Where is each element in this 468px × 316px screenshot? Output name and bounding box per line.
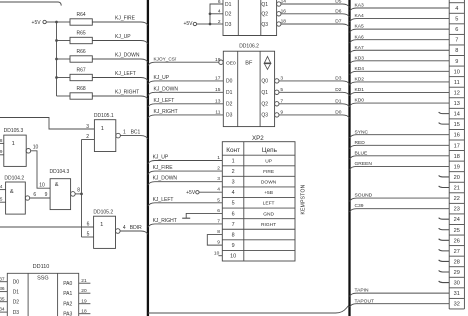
svg-text:TAPIN: TAPIN <box>355 288 370 294</box>
svg-text:KJ_UP: KJ_UP <box>154 75 170 81</box>
wire (net KA4 : bus to connector pin 5) <box>350 13 450 22</box>
svg-text:10: 10 <box>33 145 39 151</box>
junction (feed R67) <box>55 76 58 79</box>
wire (DD104.2 input pin 4) <box>0 184 6 190</box>
svg-text:PA2: PA2 <box>63 302 72 308</box>
svg-text:19: 19 <box>454 164 460 170</box>
svg-text:34: 34 <box>0 307 5 313</box>
junction (node pin8 / vertical) <box>80 193 83 196</box>
pin 14 (edge connector) <box>454 112 460 118</box>
svg-text:D1: D1 <box>225 2 232 8</box>
svg-text:2: 2 <box>86 134 89 140</box>
svg-text:TAPOUT: TAPOUT <box>355 298 374 304</box>
svg-text:KD4: KD4 <box>355 66 365 72</box>
svg-text:KJ_DOWN: KJ_DOWN <box>115 53 140 59</box>
svg-text:Конт: Конт <box>226 147 240 154</box>
svg-text:&: & <box>10 189 14 195</box>
svg-text:2: 2 <box>217 166 220 172</box>
svg-text:Q3: Q3 <box>261 22 268 28</box>
wire (DD104.3 pin 8 output) <box>75 188 81 194</box>
pin 23 (edge connector) <box>454 207 460 213</box>
resistor R64 <box>57 12 93 25</box>
svg-text:15: 15 <box>215 87 221 93</box>
svg-text:5: 5 <box>455 17 458 23</box>
wire (DD105.1 input pin 2) <box>82 134 95 140</box>
svg-text:31: 31 <box>454 291 460 297</box>
svg-text:6: 6 <box>455 27 458 33</box>
bus (left vertical signal bus) <box>147 0 149 316</box>
wire (net KJ_LEFT to bus) <box>92 71 148 81</box>
svg-text:8: 8 <box>77 188 80 194</box>
svg-text:10: 10 <box>230 254 236 260</box>
svg-text:D0: D0 <box>226 79 233 85</box>
pin 5 (edge connector) <box>455 17 458 23</box>
svg-text:20: 20 <box>81 288 87 294</box>
svg-text:5: 5 <box>232 201 235 207</box>
svg-text:8: 8 <box>217 229 220 235</box>
resistor R65 <box>57 30 93 43</box>
wire (DD110 pin 20 output PA1) <box>63 288 90 297</box>
svg-text:Q0: Q0 <box>261 79 268 85</box>
svg-text:13: 13 <box>454 101 460 107</box>
svg-text:KJ_LEFT: KJ_LEFT <box>153 197 174 203</box>
svg-text:3: 3 <box>217 176 220 182</box>
wire (net D2 : DD106.2 Q1 pin 5 to bus) <box>261 87 349 96</box>
pin 28 (edge connector) <box>454 259 460 265</box>
svg-text:DOWN: DOWN <box>261 180 277 186</box>
gate DD105.2 (OR-NOT, "1") <box>93 209 120 248</box>
svg-text:PA0: PA0 <box>63 281 72 287</box>
wire (XP2 pins 8-9 jumper) <box>207 229 222 246</box>
pin 2 (DD106.1 input D3) <box>218 19 232 28</box>
pin 30 (edge connector) <box>454 281 460 287</box>
wire (net KJ_RIGHT : bus to DD106.2 D3 pin 11) <box>148 109 233 119</box>
svg-text:PA3: PA3 <box>63 312 72 316</box>
wire (DD110 pin 18 output PA3) <box>63 308 90 316</box>
wire (DD105.3 pin 10 to DD104.3 pin 10) <box>31 145 50 189</box>
svg-text:21: 21 <box>454 186 460 192</box>
wire (connector pin 30 stub) <box>439 281 450 283</box>
svg-text:KJ_UP: KJ_UP <box>153 154 169 160</box>
svg-text:UP: UP <box>265 158 272 164</box>
svg-text:10: 10 <box>454 69 460 75</box>
svg-text:5: 5 <box>87 232 90 238</box>
svg-text:KJ_LEFT: KJ_LEFT <box>115 71 136 77</box>
pin 4 (edge connector) <box>455 6 458 12</box>
wire (net BC1 : DD105.1 pin 1 to bus) <box>120 129 147 139</box>
wire (net KJ_LEFT : bus to DD106.2 D2 pin 13) <box>148 98 233 108</box>
wire (connector pin 21 stub) <box>439 186 450 188</box>
svg-text:D3: D3 <box>13 310 20 316</box>
svg-text:D0: D0 <box>335 109 341 115</box>
svg-text:9: 9 <box>45 192 48 198</box>
svg-text:5: 5 <box>217 197 220 203</box>
wire (vertical net: DD105.1 pin2 / DD104.3 pin8 / DD105.2 pin5) <box>81 140 83 238</box>
svg-text:D3: D3 <box>226 113 233 119</box>
gate DD104.2 (NAND, "&") <box>4 175 29 214</box>
gate DD105.3 (OR-NOT, "1") <box>4 128 31 166</box>
power +5V (XP2 pin 4) <box>186 187 222 196</box>
svg-text:RIGHT: RIGHT <box>261 222 276 228</box>
svg-text:Цепь: Цепь <box>262 147 278 154</box>
wire (net KJ_UP : bus to XP2 pin 1) <box>148 154 222 163</box>
svg-text:D2: D2 <box>226 102 233 108</box>
svg-text:+5B: +5B <box>264 190 273 196</box>
wire (net KJ_DOWN to bus) <box>92 53 148 63</box>
svg-text:6: 6 <box>232 211 235 217</box>
gate DD104.3 (NAND, "&") <box>50 169 76 210</box>
svg-text:19: 19 <box>81 298 87 304</box>
svg-text:KJ_RIGHT: KJ_RIGHT <box>154 109 178 115</box>
wire (net KD4 : bus to connector pin 10) <box>350 66 450 75</box>
svg-text:DD106.2: DD106.2 <box>239 44 259 50</box>
pin 26 (edge connector) <box>454 238 460 244</box>
junction (D2 feed) <box>209 12 212 15</box>
pin 32 (edge connector) <box>454 302 460 308</box>
svg-text:29: 29 <box>454 270 460 276</box>
wire (DD104.2 input pin 5) <box>0 197 6 203</box>
svg-text:1: 1 <box>232 158 235 164</box>
svg-text:KJ_RIGHT: KJ_RIGHT <box>153 218 177 224</box>
svg-text:Q1: Q1 <box>261 2 268 8</box>
svg-text:7: 7 <box>232 222 235 228</box>
svg-text:4: 4 <box>218 9 221 15</box>
svg-text:27: 27 <box>454 249 460 255</box>
svg-text:11: 11 <box>454 80 460 86</box>
svg-text:C39: C39 <box>355 203 364 209</box>
svg-text:DD105.2: DD105.2 <box>93 209 113 215</box>
svg-text:7: 7 <box>455 38 458 44</box>
svg-text:BF: BF <box>245 60 253 66</box>
svg-text:DD104.2: DD104.2 <box>4 175 24 181</box>
svg-text:DD105.1: DD105.1 <box>94 113 114 119</box>
wire (net KJ_RIGHT to bus) <box>92 90 148 100</box>
wire (net KJOY_CS/ : bus to DD106.2 pin 19 OE0) <box>148 56 236 66</box>
svg-text:6: 6 <box>33 192 36 198</box>
pin 27 (edge connector) <box>454 249 460 255</box>
wire (net KD0 : bus to connector pin 13) <box>350 98 450 107</box>
svg-text:R68: R68 <box>77 86 86 92</box>
svg-text:BLUE: BLUE <box>355 150 369 156</box>
svg-text:3: 3 <box>455 0 458 1</box>
wire (net D0 : DD106.2 Q3 pin 9 to bus) <box>261 109 349 118</box>
svg-text:R67: R67 <box>77 67 86 73</box>
svg-text:13: 13 <box>215 98 221 104</box>
wire (net KD1 : bus to connector pin 12) <box>350 87 450 96</box>
svg-text:D2: D2 <box>13 300 20 306</box>
junction (D3 feed) <box>209 23 212 26</box>
svg-text:Q3: Q3 <box>261 113 268 119</box>
svg-text:R64: R64 <box>77 12 86 18</box>
svg-text:SOUND: SOUND <box>355 193 373 199</box>
wire (bottom net: left bus to right bus) <box>148 306 349 313</box>
svg-text:KD0: KD0 <box>355 98 365 104</box>
wire (net KJ_DOWN : bus to XP2 pin 3) <box>148 176 222 185</box>
wire (+5V to D1-D3 inputs) <box>210 4 223 24</box>
wire (net C39 : bus to connector pin 23) <box>350 203 450 212</box>
connector XS1 (edge connector cells) <box>449 0 464 309</box>
wire (net D1 : DD106.2 Q2 pin 7 to bus) <box>261 98 349 107</box>
svg-text:&: & <box>55 182 59 188</box>
pin 24 (edge connector) <box>454 217 460 223</box>
pin 4 (DD106.1 input D2) <box>218 9 232 18</box>
svg-text:8: 8 <box>232 232 235 238</box>
svg-text:D1: D1 <box>13 289 20 295</box>
svg-text:GREEN: GREEN <box>355 161 373 167</box>
svg-text:6: 6 <box>218 0 221 5</box>
svg-text:KEMPSTON: KEMPSTON <box>301 184 307 214</box>
svg-text:DD104.3: DD104.3 <box>50 169 70 175</box>
svg-text:D1: D1 <box>226 90 233 96</box>
wire (DD110 pin 21 output PA0) <box>63 278 90 287</box>
wire (DD105.3 input pin 8) <box>0 138 4 144</box>
svg-text:R65: R65 <box>77 30 86 36</box>
svg-text:6: 6 <box>87 221 90 227</box>
svg-text:D0: D0 <box>13 280 20 286</box>
svg-text:6: 6 <box>217 208 220 214</box>
wire (DD104.2 pin 6 to DD104.3 pin 9) <box>30 192 50 198</box>
svg-text:22: 22 <box>454 196 460 202</box>
svg-text:4: 4 <box>217 187 220 193</box>
svg-text:KA6: KA6 <box>355 34 365 40</box>
wire (DD105.2 input pin 6 from left) <box>0 221 94 227</box>
wire (net KD3 : bus to connector pin 9) <box>350 55 450 64</box>
svg-text:1: 1 <box>101 126 104 132</box>
svg-text:12: 12 <box>454 90 460 96</box>
pin 29 (edge connector) <box>454 270 460 276</box>
pin 7 (edge connector) <box>455 38 458 44</box>
svg-text:3: 3 <box>232 180 235 186</box>
pin 19 (edge connector) <box>454 164 460 170</box>
svg-text:KA5: KA5 <box>355 24 365 30</box>
wire (DD110 pin 37 input D0) <box>0 276 19 285</box>
svg-text:D2: D2 <box>335 87 341 93</box>
wire (net KJ_UP to bus) <box>92 34 148 44</box>
svg-text:Q1: Q1 <box>261 90 268 96</box>
svg-text:FIRE: FIRE <box>263 169 275 175</box>
svg-text:2: 2 <box>218 19 221 25</box>
pin 18 (edge connector) <box>454 154 460 160</box>
pin 31 (edge connector) <box>454 291 460 297</box>
wire (net BDIR : DD105.2 pin 4 to bus) <box>120 225 148 234</box>
svg-text:D1: D1 <box>335 98 341 104</box>
svg-text:30: 30 <box>454 281 460 287</box>
svg-text:16: 16 <box>454 133 460 139</box>
pin 6 (edge connector) <box>455 27 458 33</box>
wire (net KA3 : bus to connector pin 4) <box>350 3 450 12</box>
pin 6 (DD106.1 input D1) <box>218 0 232 8</box>
svg-text:10: 10 <box>39 182 45 188</box>
svg-text:37: 37 <box>0 276 5 282</box>
svg-text:24: 24 <box>454 217 460 223</box>
pin 21 (edge connector) <box>454 186 460 192</box>
svg-text:+5V: +5V <box>32 20 42 26</box>
svg-text:SYNC: SYNC <box>355 129 369 135</box>
svg-text:36: 36 <box>0 286 5 292</box>
wire (connector pin 24 stub) <box>439 218 450 220</box>
pin 17 (edge connector) <box>454 143 460 149</box>
pin 12 (edge connector) <box>454 90 460 96</box>
svg-text:LEFT: LEFT <box>263 201 275 207</box>
svg-text:XP2: XP2 <box>252 135 264 142</box>
wire (net D6 : DD106.1 Q2 pin 16 to bus) <box>261 8 349 17</box>
svg-text:RED: RED <box>355 140 366 146</box>
svg-text:KJ_DOWN: KJ_DOWN <box>154 86 179 92</box>
wire (net D7 : DD106.1 Q3 pin 18 to bus) <box>261 19 349 28</box>
svg-text:DD105.3: DD105.3 <box>4 128 24 134</box>
buffer DD106.1 (top half, cut by frame) <box>223 0 277 36</box>
pin 10 (edge connector) <box>454 69 460 75</box>
ground (XP2 pin 6) <box>182 208 222 218</box>
wire (net KA5 : bus to connector pin 6) <box>350 24 450 33</box>
pin 15 (edge connector) <box>454 122 460 128</box>
junction (feed R66) <box>55 58 58 61</box>
svg-text:7: 7 <box>217 218 220 224</box>
svg-text:9: 9 <box>455 59 458 65</box>
wire (DD110 pin 35 input D2) <box>0 296 19 305</box>
pin 13 (edge connector) <box>454 101 460 107</box>
wire (connector pin 14 stub) <box>439 112 450 114</box>
svg-text:KA3: KA3 <box>355 3 365 9</box>
wire (DD105.1 input pin 3 from left) <box>0 118 94 130</box>
svg-text:20: 20 <box>454 175 460 181</box>
svg-text:KJ_FIRE: KJ_FIRE <box>153 165 174 171</box>
svg-text:KD3: KD3 <box>355 55 365 61</box>
svg-text:D5: D5 <box>335 0 341 5</box>
wire (net GREEN : bus to connector pin 19) <box>350 161 450 170</box>
wire (DD110 pin 34 input D3) <box>0 307 19 316</box>
svg-text:D3: D3 <box>335 75 341 81</box>
wire (connector pin 28 stub) <box>439 260 450 262</box>
svg-text:9: 9 <box>217 240 220 246</box>
svg-text:18: 18 <box>454 154 460 160</box>
pin 3 (edge connector) <box>455 0 458 1</box>
wire (connector pin 27 stub) <box>439 249 450 251</box>
wire (XP2 pin 10 stub) <box>214 250 222 256</box>
svg-text:4: 4 <box>455 6 458 12</box>
svg-text:BDIR: BDIR <box>130 225 142 231</box>
svg-text:1: 1 <box>217 155 220 161</box>
wire (net KA7 : bus to connector pin 8) <box>350 45 450 54</box>
svg-text:D3: D3 <box>225 22 232 28</box>
svg-text:SSG: SSG <box>37 275 49 281</box>
pin 8 (edge connector) <box>455 48 458 54</box>
pin 16 (edge connector) <box>454 133 460 139</box>
wire (net D5 : DD106.1 Q1 pin 14 to bus) <box>261 0 349 8</box>
junction (feed R64) <box>55 21 58 24</box>
svg-text:9: 9 <box>232 243 235 249</box>
svg-text:PA1: PA1 <box>63 291 72 297</box>
wire (net RED : bus to connector pin 17) <box>350 140 450 149</box>
svg-text:28: 28 <box>454 259 460 265</box>
svg-text:18: 18 <box>81 308 87 314</box>
wire (net TAPIN : bus to connector pin 31) <box>350 288 450 297</box>
svg-text:KA7: KA7 <box>355 45 365 51</box>
svg-text:KJ_UP: KJ_UP <box>115 34 131 40</box>
power +5V (resistor feed) <box>32 20 57 26</box>
svg-text:KD2: KD2 <box>355 77 365 83</box>
wire (connector pin 29 stub) <box>439 271 450 273</box>
svg-text:D6: D6 <box>335 8 341 14</box>
svg-text:KJ_DOWN: KJ_DOWN <box>153 176 178 182</box>
svg-text:21: 21 <box>81 278 87 284</box>
resistor R67 <box>57 67 93 80</box>
wire (net KJ_FIRE to bus) <box>92 16 148 26</box>
wire (DD110 pin 36 input D1) <box>0 286 19 295</box>
bus (right vertical signal bus) <box>348 0 350 316</box>
power +5V (DD106.1 inputs pull-up) <box>183 21 210 27</box>
connector XP2 (KEMPSTON joystick) <box>222 135 295 261</box>
svg-text:32: 32 <box>454 302 460 308</box>
svg-text:3: 3 <box>86 124 89 130</box>
label KEMPSTON (connector function) <box>301 184 307 214</box>
svg-text:2: 2 <box>232 169 235 175</box>
wire (DD105.2 input pin 5) <box>82 232 94 238</box>
svg-text:19: 19 <box>215 57 221 63</box>
svg-text:10: 10 <box>214 250 220 256</box>
svg-text:4: 4 <box>123 225 126 231</box>
wire (net BLUE : bus to connector pin 18) <box>350 150 450 159</box>
svg-text:17: 17 <box>215 76 221 82</box>
svg-text:17: 17 <box>454 143 460 149</box>
wire (connector pin 26 stub) <box>439 239 450 241</box>
svg-text:35: 35 <box>0 296 5 302</box>
wire (top-left corner stub) <box>0 2 61 6</box>
wire (net KJ_DOWN : bus to DD106.2 D1 pin 15) <box>148 86 233 96</box>
svg-text:GND: GND <box>263 211 274 217</box>
wire (connector pin 25 stub) <box>439 228 450 230</box>
pin 11 (edge connector) <box>454 80 460 86</box>
svg-text:14: 14 <box>454 112 460 118</box>
svg-text:DD110: DD110 <box>33 264 50 270</box>
svg-text:KJ_FIRE: KJ_FIRE <box>115 16 136 22</box>
svg-text:1: 1 <box>12 141 15 147</box>
wire (DD105.3 input pin 9) <box>0 149 4 155</box>
svg-text:KJ_RIGHT: KJ_RIGHT <box>115 90 139 96</box>
wire (net KJ_RIGHT : bus to XP2 pin 7) <box>148 218 222 227</box>
svg-text:D7: D7 <box>335 19 341 25</box>
svg-text:OE0: OE0 <box>226 60 236 66</box>
svg-text:1: 1 <box>123 129 126 135</box>
svg-text:KD1: KD1 <box>355 87 365 93</box>
svg-text:1: 1 <box>100 222 103 228</box>
svg-text:25: 25 <box>454 228 460 234</box>
pin 9 (edge connector) <box>455 59 458 65</box>
wire (net KJ_UP : bus to DD106.2 D0 pin 17) <box>148 75 233 85</box>
wire (net SYNC : bus to connector pin 16) <box>350 129 450 138</box>
svg-text:23: 23 <box>454 207 460 213</box>
svg-text:Q2: Q2 <box>261 102 268 108</box>
svg-text:4: 4 <box>232 190 235 196</box>
wire (net D3 : DD106.2 Q0 pin 3 to bus) <box>261 75 349 84</box>
pin 20 (edge connector) <box>454 175 460 181</box>
pin 25 (edge connector) <box>454 228 460 234</box>
wire (DD110 pin 19 output PA2) <box>63 298 90 307</box>
resistor R66 <box>57 49 93 62</box>
svg-text:+5V: +5V <box>183 21 193 27</box>
wire (connector pin 15 stub) <box>439 123 450 125</box>
svg-text:KJOY_CS/: KJOY_CS/ <box>154 56 177 61</box>
svg-text:Q2: Q2 <box>261 12 268 18</box>
svg-text:8: 8 <box>455 48 458 54</box>
resistor R68 <box>57 86 93 99</box>
junction (feed R65) <box>55 39 58 42</box>
chip DD110 (SSG sound generator) <box>7 264 78 316</box>
svg-text:26: 26 <box>454 238 460 244</box>
svg-text:KA4: KA4 <box>355 13 365 19</box>
svg-text:R66: R66 <box>77 49 86 55</box>
gate DD105.1 (OR-NOT, "1") <box>94 113 120 152</box>
